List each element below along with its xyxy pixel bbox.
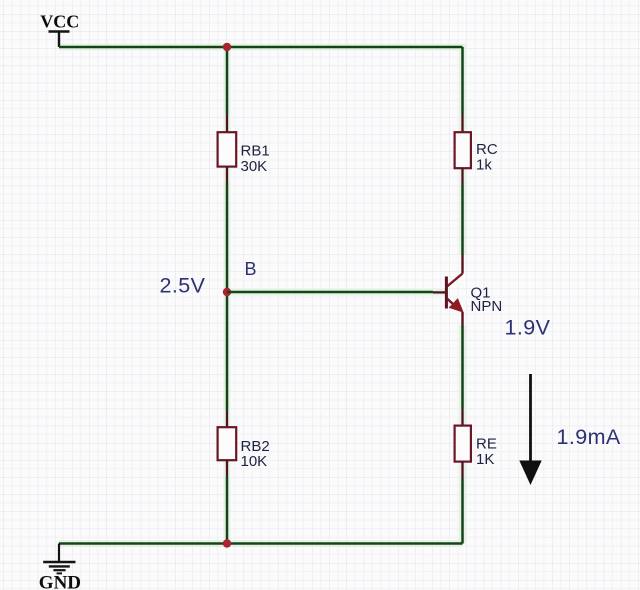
svg-text:RC: RC <box>476 141 498 158</box>
node junction bottom <box>223 539 231 547</box>
wire top rail <box>59 46 463 49</box>
wire halo left <box>59 47 463 544</box>
svg-text:30K: 30K <box>241 158 268 175</box>
svg-text:RE: RE <box>476 435 497 452</box>
pin base Q1 <box>433 291 445 293</box>
current direction arrow <box>519 374 541 485</box>
wire collector <box>461 185 464 255</box>
resistor RB2 <box>218 411 237 477</box>
resistor RC <box>455 115 471 186</box>
wire right branch upper <box>461 47 464 115</box>
label RE 1K <box>476 435 497 468</box>
svg-text:VCC: VCC <box>40 11 79 31</box>
svg-text:2.5V: 2.5V <box>160 274 206 298</box>
label RC 1k <box>476 141 498 174</box>
resistor RB1 <box>218 115 237 183</box>
wire halo top <box>59 47 463 544</box>
svg-text:GND: GND <box>39 572 81 590</box>
svg-text:NPN: NPN <box>471 298 503 315</box>
wire base <box>227 291 433 294</box>
svg-text:10K: 10K <box>241 453 268 470</box>
svg-text:1.9mA: 1.9mA <box>557 425 621 449</box>
node junction top <box>223 43 231 51</box>
label RB2 10K <box>241 438 270 470</box>
svg-text:1K: 1K <box>476 451 494 468</box>
label Q1 NPN <box>471 284 503 315</box>
wire left branch lower <box>226 477 229 544</box>
wire bottom rail <box>59 542 463 545</box>
wire emitter <box>461 325 464 409</box>
label RB1 30K <box>241 143 270 175</box>
wire left branch middle <box>226 183 229 411</box>
wire left branch upper <box>226 47 229 115</box>
svg-text:1.9V: 1.9V <box>505 316 551 340</box>
svg-text:B: B <box>245 259 257 279</box>
wire right branch lower <box>461 478 464 544</box>
svg-text:1k: 1k <box>476 157 492 174</box>
resistor RE <box>455 409 471 478</box>
power symbol VCC <box>49 32 70 48</box>
ground symbol <box>43 544 75 574</box>
node B junction <box>223 288 231 296</box>
transistor Q1 <box>446 255 462 325</box>
